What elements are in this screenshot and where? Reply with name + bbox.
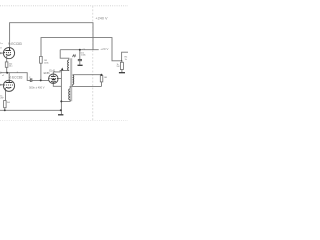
svg-text:500n ± 400 V: 500n ± 400 V	[29, 85, 45, 89]
svg-text:EF86: EF86	[44, 72, 51, 75]
svg-text:EL41: EL41	[49, 70, 55, 73]
svg-text:8Ω: 8Ω	[104, 77, 107, 79]
svg-text:+240 V: +240 V	[95, 17, 108, 21]
svg-text:½ ECC83: ½ ECC83	[9, 75, 23, 79]
svg-text:a2: a2	[2, 75, 4, 77]
svg-text:5W: 5W	[117, 66, 120, 68]
svg-text:½ ECC83: ½ ECC83	[8, 42, 22, 46]
svg-text:+20 V: +20 V	[100, 47, 109, 51]
